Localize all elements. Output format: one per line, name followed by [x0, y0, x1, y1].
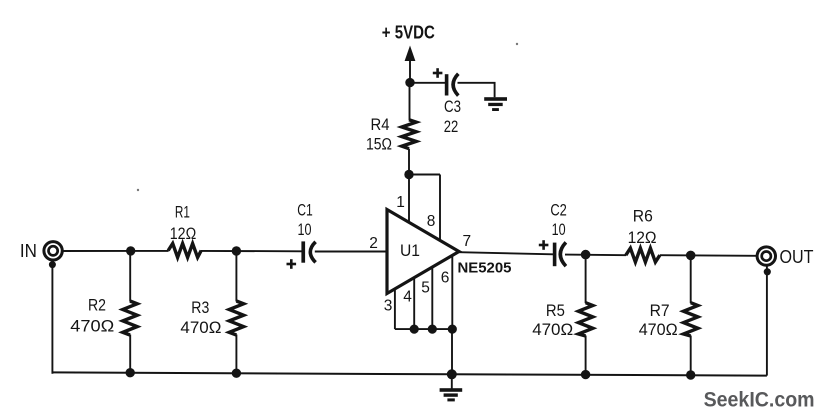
svg-text:R7: R7	[650, 301, 670, 320]
speck artifacts	[137, 43, 518, 191]
op-amp U1	[387, 210, 459, 294]
node pin5	[428, 325, 437, 334]
terminal IN	[44, 242, 62, 260]
wire node to pin8 top	[409, 174, 440, 176]
node rail R5	[581, 370, 590, 379]
svg-text:U1: U1	[400, 242, 420, 260]
wire R5 top	[585, 255, 587, 304]
wire R3 top	[235, 251, 237, 302]
ground main	[440, 388, 463, 401]
wire C3 to ground	[458, 83, 495, 97]
resistor R2	[123, 301, 137, 335]
label plus C2	[539, 240, 549, 250]
wire R7 top	[690, 255, 692, 303]
wire pin bus	[395, 328, 452, 330]
node A top (R2)	[126, 246, 135, 255]
svg-text:4: 4	[403, 289, 412, 306]
svg-text:R3: R3	[191, 298, 209, 317]
wire supply node to C3	[410, 82, 445, 84]
wire pin4	[413, 278, 415, 329]
svg-text:470Ω: 470Ω	[532, 320, 573, 339]
wire IN to R1	[63, 250, 169, 252]
svg-text:7: 7	[462, 233, 471, 250]
svg-text:+ 5VDC: + 5VDC	[382, 22, 435, 43]
node rail R2	[126, 368, 135, 377]
wire pin7 to C2	[459, 252, 553, 254]
node IN bottom dot	[49, 261, 56, 268]
capacitor C1	[301, 241, 315, 262]
svg-text:R1: R1	[175, 203, 190, 222]
label plus C3	[433, 68, 443, 78]
wire R1 to C1	[201, 250, 302, 252]
svg-text:6: 6	[441, 270, 450, 287]
terminal OUT	[757, 247, 775, 265]
node C2/R5	[581, 250, 591, 260]
svg-text:R5: R5	[546, 301, 565, 320]
svg-text:10: 10	[298, 220, 312, 239]
svg-text:1: 1	[396, 194, 405, 211]
node rail R3	[232, 369, 241, 378]
resistor R1	[168, 244, 201, 258]
resistor R6	[626, 248, 660, 262]
wire ground stem	[451, 374, 453, 388]
node supply junction +5VDC	[405, 78, 414, 87]
svg-text:2: 2	[369, 235, 378, 252]
wire R4 to pin node	[408, 149, 410, 175]
svg-text:22: 22	[444, 117, 459, 136]
svg-text:C1: C1	[297, 201, 313, 220]
svg-text:NE5205: NE5205	[458, 260, 512, 277]
wire R5 bottom	[585, 336, 587, 375]
wire pin5	[431, 267, 433, 329]
wire pin1	[408, 175, 410, 223]
svg-text:470Ω: 470Ω	[70, 317, 114, 336]
resistor R3	[229, 301, 243, 335]
ground near C3	[484, 97, 507, 111]
wire R7 bottom	[690, 336, 692, 376]
wire supply node to R4	[409, 83, 411, 120]
wire pin8	[439, 175, 441, 241]
svg-text:3: 3	[384, 298, 393, 315]
wire R6 to OUT	[660, 254, 757, 257]
svg-text:15Ω: 15Ω	[366, 135, 392, 154]
svg-text:R2: R2	[88, 295, 106, 314]
node R6/R7	[686, 251, 696, 261]
wire IN drop to rail	[51, 261, 53, 374]
svg-text:470Ω: 470Ω	[639, 320, 678, 339]
wire pin3	[394, 289, 396, 329]
svg-text:12Ω: 12Ω	[628, 228, 657, 247]
wire OUT drop	[766, 266, 768, 376]
capacitor C3	[445, 74, 459, 96]
svg-text:SeekIC.com: SeekIC.com	[704, 388, 815, 412]
node OUT bottom dot	[764, 268, 771, 275]
svg-text:C2: C2	[550, 201, 567, 220]
svg-text:5: 5	[421, 280, 430, 297]
node pin1/pin8 junction	[404, 170, 413, 179]
node pin6	[448, 325, 457, 334]
node pin4	[410, 325, 419, 334]
wire R2 bottom	[129, 335, 131, 374]
svg-text:IN: IN	[20, 241, 37, 261]
node rail ground	[447, 369, 457, 379]
wire R2 top	[129, 251, 131, 302]
wire R3 bottom	[235, 335, 237, 374]
supply +5VDC arrow	[405, 46, 416, 83]
svg-text:R6: R6	[633, 207, 653, 226]
wire C1 to pin2	[315, 251, 387, 253]
svg-text:R4: R4	[371, 115, 390, 134]
label plus C1	[287, 259, 297, 269]
wire pin6 to rail	[451, 329, 453, 374]
svg-text:8: 8	[427, 213, 436, 230]
resistor R4	[402, 120, 416, 149]
capacitor C2	[553, 242, 566, 266]
svg-text:470Ω: 470Ω	[180, 318, 221, 337]
svg-text:OUT: OUT	[780, 247, 814, 267]
node rail R7	[686, 370, 695, 379]
node B top (R3)	[232, 246, 241, 255]
svg-text:10: 10	[552, 220, 566, 239]
resistor R7	[684, 303, 698, 336]
resistor R5	[578, 303, 592, 336]
svg-text:12Ω: 12Ω	[170, 224, 197, 243]
wire C2 to R6	[565, 254, 626, 257]
wire bottom rail	[52, 372, 767, 375]
wire pin6	[451, 256, 453, 329]
svg-text:C3: C3	[444, 97, 461, 116]
